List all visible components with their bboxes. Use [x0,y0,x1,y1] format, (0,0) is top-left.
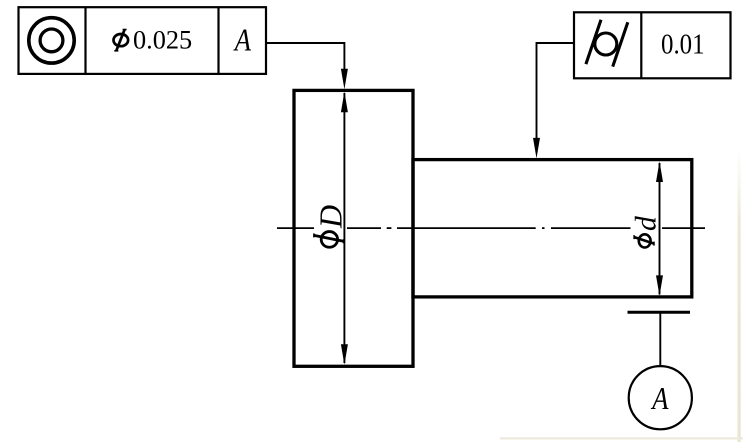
svg-text:A: A [650,382,668,416]
svg-text:d: d [631,216,663,231]
svg-text:D: D [313,205,349,229]
svg-text:A: A [233,24,251,58]
svg-text:0.025: 0.025 [133,26,192,55]
svg-text:0.01: 0.01 [661,28,705,60]
